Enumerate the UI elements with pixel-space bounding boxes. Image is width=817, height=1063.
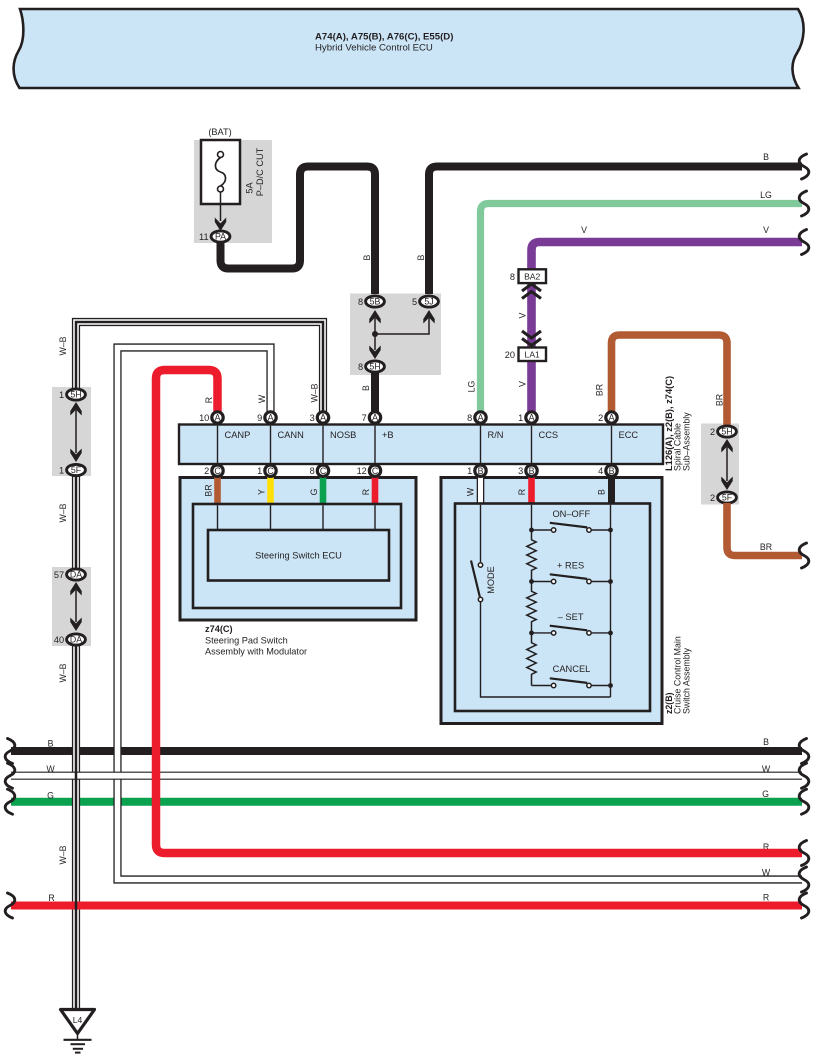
svg-text:5F: 5F <box>722 493 733 503</box>
svg-text:ON–OFF: ON–OFF <box>552 509 590 519</box>
svg-text:B: B <box>48 739 54 749</box>
stub G into steering box <box>320 476 327 505</box>
wire LG from R/N 8(A) to right edge <box>481 204 803 414</box>
svg-text:B: B <box>416 254 426 260</box>
svg-text:8: 8 <box>310 466 315 476</box>
svg-text:5F: 5F <box>71 465 82 475</box>
svg-text:DA: DA <box>70 570 82 580</box>
wire between DA connectors <box>75 590 77 622</box>
svg-text:A: A <box>529 413 535 423</box>
svg-text:5B: 5B <box>370 297 381 307</box>
fuse holder gray box <box>194 140 272 243</box>
bus wire G (green) <box>11 798 802 806</box>
svg-text:R: R <box>361 489 371 495</box>
strip divider <box>322 426 324 463</box>
resistor 2 <box>527 582 536 633</box>
arrow into left 5H <box>70 402 81 416</box>
svg-text:MODE: MODE <box>486 566 496 594</box>
wire W-B from left 5F to DA <box>72 474 80 570</box>
pin 4 B <box>606 465 617 476</box>
svg-text:2: 2 <box>710 493 715 503</box>
svg-text:7: 7 <box>362 413 367 423</box>
svg-text:W–B: W–B <box>310 383 320 402</box>
svg-text:Y: Y <box>257 489 267 495</box>
svg-text:Switch Assembly: Switch Assembly <box>681 647 691 714</box>
svg-text:12: 12 <box>357 466 367 476</box>
svg-text:9: 9 <box>257 413 262 423</box>
connector 1 5H <box>67 389 86 400</box>
wire stub to ECU <box>374 505 376 530</box>
pin 12 C <box>369 465 380 476</box>
stub B into cruise box <box>608 476 615 505</box>
connector 11 PA <box>211 231 230 242</box>
svg-text:Sub–Assembly: Sub–Assembly <box>681 412 691 471</box>
svg-text:A74(A), A75(B), A76(C), E55(D): A74(A), A75(B), A76(C), E55(D) <box>315 32 453 43</box>
arrow into right 5H <box>721 439 732 453</box>
break symbol right end B wire <box>799 154 809 179</box>
pin 1 C <box>265 465 276 476</box>
strip divider <box>531 426 533 463</box>
strip divider <box>480 426 482 463</box>
wire V from CCS 1(A) to right edge <box>532 242 803 413</box>
svg-text:R/N: R/N <box>488 430 504 440</box>
break symbol right end R wire <box>799 841 809 866</box>
svg-text:W: W <box>466 487 476 496</box>
svg-text:A: A <box>268 413 274 423</box>
connector 2 5F right <box>718 492 737 503</box>
svg-text:BR: BR <box>715 394 725 406</box>
arrow into PA <box>215 218 226 232</box>
svg-text:BR: BR <box>595 384 605 396</box>
svg-text:8: 8 <box>358 297 363 307</box>
connector 2 5H right <box>718 426 737 437</box>
svg-text:A: A <box>372 413 378 423</box>
stub W into cruise box <box>477 476 485 505</box>
svg-text:+B: +B <box>382 430 394 440</box>
svg-text:1: 1 <box>257 466 262 476</box>
wire stub to ECU <box>217 505 219 530</box>
svg-text:5H: 5H <box>70 390 81 400</box>
wire MODE to bottom rail <box>481 602 611 697</box>
arrow into 5H mid <box>369 346 380 360</box>
right connector 5H/5F gray box <box>701 424 739 505</box>
pin 2 C <box>212 465 223 476</box>
svg-text:57: 57 <box>54 570 64 580</box>
ground L4 <box>61 1010 95 1034</box>
steering pad switch assembly box <box>180 478 416 621</box>
resistor 3 <box>527 633 536 686</box>
double chevron down above LA1 <box>522 331 541 346</box>
svg-text:1: 1 <box>467 466 472 476</box>
wire W to MODE switch <box>480 505 482 562</box>
break symbols left ends of buses <box>5 739 15 764</box>
connector 8 BA2 <box>519 269 547 283</box>
svg-text:PA: PA <box>215 232 226 242</box>
svg-text:z74(C): z74(C) <box>205 624 233 634</box>
ECU banner Hybrid Vehicle Control ECU <box>14 9 804 88</box>
junction 5B/5J/5H gray box <box>350 294 441 376</box>
svg-text:8: 8 <box>358 362 363 372</box>
svg-text:BR: BR <box>760 542 772 552</box>
steering inner box <box>193 504 401 608</box>
break symbol right end V wire <box>799 230 809 255</box>
svg-text:20: 20 <box>505 350 515 360</box>
break symbol right end BR wire <box>799 543 809 568</box>
svg-text:B: B <box>529 466 535 476</box>
svg-text:V: V <box>763 225 769 235</box>
svg-text:G: G <box>762 789 769 799</box>
arrow into right 5F <box>721 477 732 491</box>
left connector DA gray box <box>52 567 91 646</box>
svg-text:V: V <box>518 381 528 387</box>
connector 8 5H mid <box>366 361 385 372</box>
spiral cable connector strip <box>179 425 663 465</box>
connector 40 DA <box>67 634 86 645</box>
svg-text:L4: L4 <box>73 1015 83 1025</box>
svg-text:11: 11 <box>199 232 209 242</box>
W-B stripe over W bus crossing <box>75 771 78 781</box>
switch CANCEL <box>532 685 552 687</box>
arrow into left 5F <box>70 449 81 463</box>
wire stub to ECU <box>270 505 272 530</box>
strip divider <box>611 426 613 463</box>
svg-text:ECC: ECC <box>619 430 639 440</box>
svg-text:C: C <box>214 466 221 476</box>
svg-text:B: B <box>763 152 769 162</box>
svg-text:Hybrid Vehicle Control ECU: Hybrid Vehicle Control ECU <box>315 43 433 54</box>
stub R into cruise box <box>528 476 535 505</box>
svg-text:W–B: W–B <box>58 503 68 522</box>
svg-text:B: B <box>597 489 607 495</box>
svg-text:2: 2 <box>598 413 603 423</box>
svg-text:4: 4 <box>598 466 603 476</box>
wire stub to ECU <box>322 505 324 530</box>
svg-text:R: R <box>517 489 527 495</box>
svg-text:– SET: – SET <box>558 612 584 622</box>
svg-text:1: 1 <box>59 390 64 400</box>
junction wire 5B-5J-5H <box>375 318 429 350</box>
svg-text:5H: 5H <box>369 362 380 372</box>
arrow into 5J <box>423 310 434 324</box>
wire BR from ECC 2(A) over to right 5H <box>612 335 728 425</box>
junction dot <box>372 331 378 337</box>
wire B from 5H to +B pin <box>371 372 379 413</box>
switch - SET <box>529 631 534 636</box>
fuse 5A P-D/C CUT <box>201 140 240 204</box>
svg-text:+ RES: + RES <box>557 561 584 571</box>
svg-text:3: 3 <box>518 466 523 476</box>
connector 1 5F <box>67 464 86 475</box>
svg-text:C: C <box>320 466 327 476</box>
bus wire B (black) <box>11 747 802 755</box>
svg-text:B: B <box>763 737 769 747</box>
connector 20 LA1 <box>519 348 547 362</box>
svg-text:CCS: CCS <box>539 430 559 440</box>
svg-text:2: 2 <box>710 427 715 437</box>
arrow into DA 57 <box>70 582 81 596</box>
svg-text:LG: LG <box>760 190 772 200</box>
connector 57 DA <box>67 569 86 580</box>
arrow into DA 40 <box>70 618 81 632</box>
svg-text:10: 10 <box>199 413 209 423</box>
svg-text:1: 1 <box>59 465 64 475</box>
W-B stripe over R bus crossing <box>75 901 78 910</box>
svg-text:5J: 5J <box>424 297 433 307</box>
bus wire R bottom (red) <box>11 902 802 910</box>
svg-text:W–B: W–B <box>58 845 68 864</box>
wire BR from right 5F to right edge <box>727 503 802 556</box>
resistor 1 <box>527 530 536 582</box>
svg-text:V: V <box>581 225 587 235</box>
pin 10 A CANP <box>212 412 223 423</box>
pin 1 A CCS <box>526 412 537 423</box>
svg-text:LG: LG <box>467 380 477 392</box>
pin 3 A NOSB <box>317 412 328 423</box>
double chevron up below BA2 <box>522 284 541 299</box>
svg-text:CANP: CANP <box>225 430 251 440</box>
pin 1 B <box>475 465 486 476</box>
connector 8 5B <box>366 296 385 307</box>
svg-text:CANCEL: CANCEL <box>553 664 591 674</box>
switch MODE <box>478 563 482 567</box>
svg-text:B: B <box>362 254 372 260</box>
strip divider <box>270 426 272 463</box>
wire W-B from NOSB 3(A) to left 5H <box>76 322 323 413</box>
switch + RES <box>529 579 534 584</box>
steering switch ECU box <box>208 530 389 581</box>
svg-text:Steering Pad Switch: Steering Pad Switch <box>205 636 288 646</box>
svg-text:CANN: CANN <box>278 430 304 440</box>
svg-text:V: V <box>518 312 528 318</box>
svg-text:5A: 5A <box>245 182 255 194</box>
strip divider <box>374 426 376 463</box>
wire B from 5J to right edge <box>429 167 802 295</box>
wire W-B from DA 40 to ground L4 <box>72 643 80 1010</box>
wire R from CANP 10(A) to bus <box>156 370 802 853</box>
break symbol right end LG wire <box>799 191 809 216</box>
right rail wire <box>610 505 612 697</box>
svg-text:BR: BR <box>204 484 214 496</box>
svg-text:5H: 5H <box>721 427 732 437</box>
stub BR into steering box <box>214 476 221 505</box>
svg-text:W–B: W–B <box>58 663 68 682</box>
stub R into steering box <box>372 476 379 505</box>
svg-text:NOSB: NOSB <box>330 430 356 440</box>
svg-text:B: B <box>609 466 615 476</box>
strip divider <box>217 426 219 463</box>
pin 8 A R/N <box>475 412 486 423</box>
cruise inner box <box>455 504 650 712</box>
wire R to ladder <box>531 505 533 530</box>
pin 2 A ECC <box>606 412 617 423</box>
stub Y into steering box <box>267 476 274 505</box>
svg-text:3: 3 <box>310 413 315 423</box>
switch ON-OFF <box>529 528 534 533</box>
svg-text:2: 2 <box>204 466 209 476</box>
connector 5 5J <box>420 296 439 307</box>
svg-text:A: A <box>609 413 615 423</box>
svg-text:BA2: BA2 <box>524 272 540 282</box>
svg-text:8: 8 <box>510 272 515 282</box>
break symbol right end W wire <box>799 867 809 892</box>
pin 8 C <box>317 465 328 476</box>
svg-text:B: B <box>361 385 371 391</box>
svg-text:(BAT): (BAT) <box>208 127 231 137</box>
svg-text:1: 1 <box>518 413 523 423</box>
svg-text:C: C <box>267 466 274 476</box>
svg-text:5: 5 <box>412 297 417 307</box>
pin 9 A CANN <box>265 412 276 423</box>
svg-text:Steering Switch ECU: Steering Switch ECU <box>255 551 342 561</box>
svg-text:DA: DA <box>70 635 82 645</box>
svg-text:LA1: LA1 <box>525 350 541 360</box>
svg-text:C: C <box>372 466 379 476</box>
wire W from CANN 9(A) to bus <box>118 348 803 880</box>
wire between left 5H and 5F <box>75 410 77 453</box>
svg-text:P–D/C CUT: P–D/C CUT <box>255 147 265 196</box>
pin 3 B <box>526 465 537 476</box>
svg-text:B: B <box>478 466 484 476</box>
svg-text:Assembly with Modulator: Assembly with Modulator <box>205 647 307 657</box>
wire B from PA to 5B <box>221 167 376 295</box>
svg-text:A: A <box>320 413 326 423</box>
svg-text:W: W <box>257 394 267 403</box>
cruise control main switch assembly box <box>441 478 662 724</box>
arrow into 5B <box>369 310 380 324</box>
pin 7 A +B <box>369 412 380 423</box>
svg-text:W–B: W–B <box>58 336 68 355</box>
svg-text:R: R <box>204 397 214 403</box>
bus wire W (white) <box>11 772 802 780</box>
left connector 5H/5F gray box <box>52 387 91 476</box>
svg-text:A: A <box>215 413 221 423</box>
svg-text:A: A <box>478 413 484 423</box>
svg-text:8: 8 <box>467 413 472 423</box>
svg-text:R: R <box>763 893 769 903</box>
svg-text:40: 40 <box>54 635 64 645</box>
wire fuse to PA <box>220 192 222 221</box>
wire between right 5H and 5F <box>726 447 728 481</box>
svg-text:G: G <box>309 488 319 495</box>
break symbols right ends of buses <box>799 739 809 764</box>
svg-text:G: G <box>47 791 54 801</box>
